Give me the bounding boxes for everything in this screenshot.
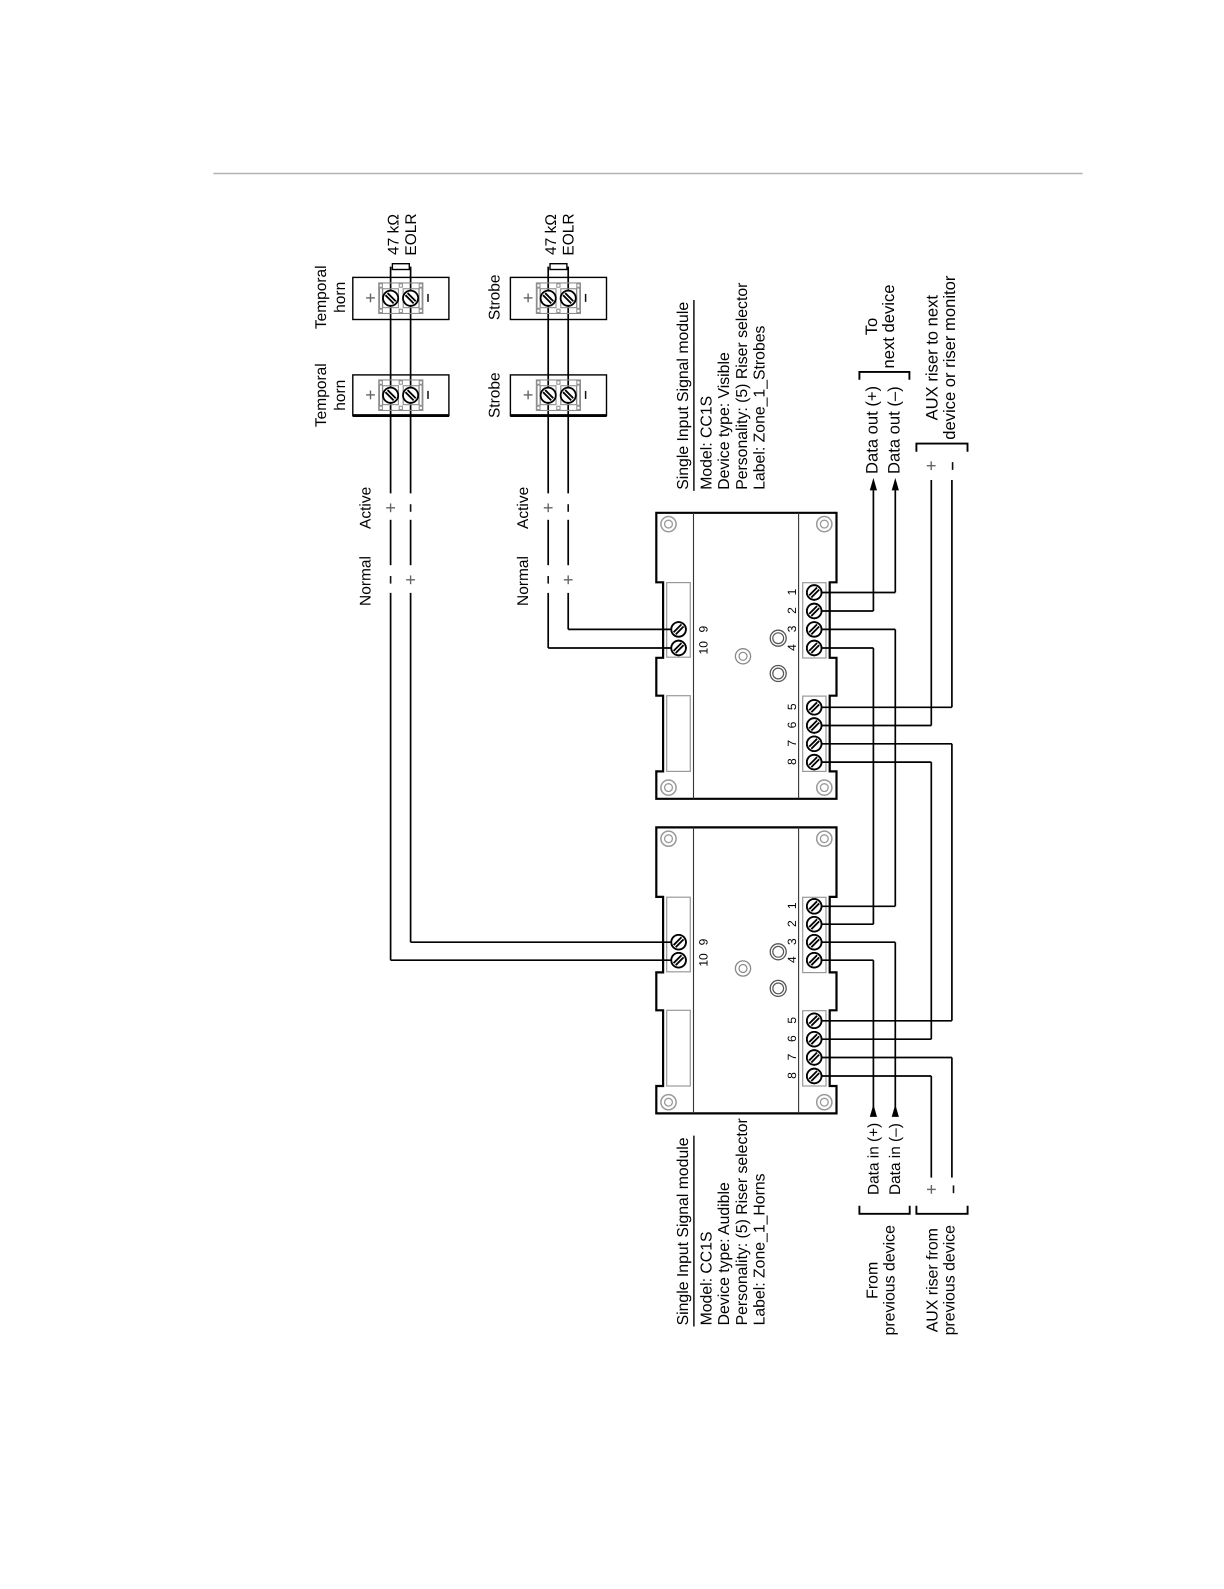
svg-text:1: 1	[785, 588, 799, 595]
svg-text:10: 10	[697, 953, 711, 967]
svg-text:Strobe: Strobe	[487, 372, 504, 418]
svg-text:8: 8	[785, 1072, 799, 1079]
svg-text:9: 9	[697, 938, 711, 945]
svg-text:Temporal: Temporal	[313, 265, 330, 329]
svg-text:horn: horn	[332, 282, 349, 313]
svg-text:device or riser monitor: device or riser monitor	[940, 275, 959, 440]
svg-text:Active: Active	[515, 487, 532, 529]
svg-text:previous device: previous device	[882, 1225, 899, 1336]
svg-text:Data in (+): Data in (+)	[865, 1123, 882, 1195]
svg-text:Model: CC1S: Model: CC1S	[699, 1231, 716, 1325]
svg-text:Active: Active	[357, 487, 374, 529]
svg-text:1: 1	[785, 902, 799, 909]
svg-text:previous device: previous device	[942, 1225, 959, 1336]
svg-text:47 kΩ: 47 kΩ	[386, 214, 403, 255]
svg-text:7: 7	[785, 740, 799, 747]
svg-text:Temporal: Temporal	[313, 363, 330, 427]
svg-text:AUX riser from: AUX riser from	[925, 1228, 942, 1332]
svg-text:AUX riser to next: AUX riser to next	[923, 295, 942, 421]
svg-text:horn: horn	[332, 380, 349, 411]
svg-text:2: 2	[785, 920, 799, 927]
svg-text:6: 6	[785, 721, 799, 728]
svg-text:4: 4	[785, 956, 799, 963]
svg-text:Single Input Signal module: Single Input Signal module	[675, 302, 692, 490]
svg-text:Strobe: Strobe	[487, 274, 504, 320]
svg-text:Model: CC1S: Model: CC1S	[699, 396, 716, 490]
svg-text:9: 9	[697, 626, 711, 633]
svg-text:8: 8	[785, 758, 799, 765]
svg-text:From: From	[865, 1262, 882, 1299]
svg-text:Single Input Signal module: Single Input Signal module	[675, 1137, 692, 1325]
svg-text:6: 6	[785, 1035, 799, 1042]
svg-text:EOLR: EOLR	[561, 213, 578, 255]
svg-text:Normal: Normal	[515, 556, 532, 606]
svg-text:Personality: (5) Riser selecto: Personality: (5) Riser selector	[734, 283, 751, 490]
svg-text:Data in (–): Data in (–)	[887, 1123, 904, 1195]
svg-text:Label: Zone_1_Horns: Label: Zone_1_Horns	[751, 1173, 768, 1325]
svg-text:3: 3	[785, 625, 799, 632]
svg-text:EOLR: EOLR	[403, 213, 420, 255]
svg-text:3: 3	[785, 938, 799, 945]
svg-text:next device: next device	[879, 285, 898, 369]
svg-text:Data out (+): Data out (+)	[862, 386, 881, 474]
svg-text:Device type: Audible: Device type: Audible	[716, 1182, 733, 1325]
svg-text:5: 5	[785, 1017, 799, 1024]
svg-text:Data out (–): Data out (–)	[884, 386, 903, 474]
svg-text:Label: Zone_1_Strobes: Label: Zone_1_Strobes	[751, 325, 768, 489]
svg-text:Personality: (5) Riser selecto: Personality: (5) Riser selector	[734, 1118, 751, 1325]
svg-text:2: 2	[785, 607, 799, 614]
svg-text:47 kΩ: 47 kΩ	[543, 214, 560, 255]
svg-text:Device type: Visible: Device type: Visible	[716, 352, 733, 490]
svg-text:Normal: Normal	[357, 556, 374, 606]
svg-text:4: 4	[785, 644, 799, 651]
svg-text:10: 10	[697, 641, 711, 655]
svg-text:5: 5	[785, 703, 799, 710]
svg-text:7: 7	[785, 1053, 799, 1060]
